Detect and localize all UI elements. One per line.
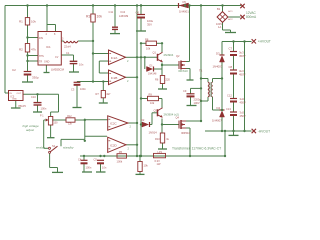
svg-text:10k: 10k (146, 46, 151, 50)
svg-text:Transformer: 117VAC-6.3VAC-CT: Transformer: 117VAC-6.3VAC-CT (172, 147, 221, 151)
svg-text:R12: R12 (67, 115, 72, 118)
svg-text:THS: THS (39, 55, 44, 58)
svg-text:DIS: DIS (39, 37, 43, 40)
svg-text:450V: 450V (240, 114, 246, 118)
svg-text:10k: 10k (150, 101, 155, 105)
svg-text:100k: 100k (117, 159, 123, 163)
svg-text:C13: C13 (226, 107, 231, 111)
svg-text:C6: C6 (136, 11, 140, 15)
svg-text:R6: R6 (155, 77, 159, 81)
svg-text:GND: GND (44, 61, 50, 64)
svg-text:450V: 450V (239, 73, 246, 77)
svg-text:enable: enable (36, 146, 45, 150)
svg-text:IC3: IC3 (11, 96, 15, 99)
svg-text:100V: 100V (194, 101, 200, 105)
svg-text:IRF510: IRF510 (181, 131, 191, 135)
svg-text:1W: 1W (157, 162, 161, 166)
svg-text:1N4148: 1N4148 (148, 73, 157, 76)
svg-text:C4: C4 (78, 158, 82, 162)
svg-text:3u3: 3u3 (240, 97, 245, 101)
svg-text:IRF610: IRF610 (179, 69, 189, 73)
svg-text:IC2A: IC2A (111, 56, 118, 60)
svg-text:35V: 35V (147, 23, 152, 27)
svg-text:standby: standby (63, 146, 74, 150)
svg-text:C11: C11 (109, 10, 114, 14)
svg-text:C12: C12 (227, 94, 232, 98)
svg-text:R10: R10 (155, 137, 160, 141)
svg-text:C3: C3 (71, 88, 75, 92)
svg-text:Q4: Q4 (176, 116, 180, 120)
svg-text:LM555CM: LM555CM (51, 67, 65, 71)
svg-text:D4: D4 (217, 106, 221, 110)
svg-text:R8: R8 (145, 38, 149, 42)
svg-text:IC2C: IC2C (110, 122, 118, 126)
svg-text:R9: R9 (149, 93, 153, 97)
svg-text:D3: D3 (216, 52, 220, 56)
svg-text:TR: TR (39, 60, 42, 63)
svg-text:R3: R3 (86, 15, 90, 19)
svg-text:D2: D2 (141, 118, 145, 122)
svg-text:Q2: Q2 (176, 54, 180, 58)
svg-text:78L05: 78L05 (18, 104, 26, 108)
svg-text:450V: 450V (240, 101, 246, 105)
svg-text:R5: R5 (119, 150, 123, 154)
svg-text:C8: C8 (229, 65, 233, 69)
svg-text:C1: C1 (66, 51, 70, 55)
svg-text:1A: 1A (218, 25, 221, 29)
svg-text:+HVOUT: +HVOUT (258, 40, 271, 44)
svg-text:2N3904: 2N3904 (164, 53, 174, 57)
svg-text:R7: R7 (96, 92, 100, 96)
svg-text:C2: C2 (12, 68, 16, 72)
svg-text:22uH: 22uH (64, 44, 71, 48)
svg-text:450V: 450V (239, 54, 246, 58)
svg-text:10k: 10k (97, 15, 103, 19)
svg-text:OUT: OUT (17, 93, 22, 95)
svg-text:C10: C10 (31, 95, 36, 99)
svg-text:Q3: Q3 (154, 108, 158, 112)
svg-text:GND: GND (12, 99, 17, 101)
svg-text:D5: D5 (183, 0, 187, 4)
svg-text:C9: C9 (183, 89, 187, 93)
svg-text:220: 220 (166, 77, 171, 81)
svg-text:330p: 330p (32, 76, 39, 80)
svg-text:3u3: 3u3 (240, 111, 245, 115)
svg-text:10n: 10n (102, 165, 107, 169)
svg-text:10k: 10k (144, 164, 149, 168)
svg-text:-HVOUT: -HVOUT (258, 129, 270, 133)
svg-text:100: 100 (54, 121, 59, 124)
svg-text:100n: 100n (41, 107, 47, 111)
svg-text:100n: 100n (80, 87, 86, 91)
svg-text:Q1: Q1 (153, 50, 157, 54)
svg-text:1N914: 1N914 (149, 130, 158, 134)
svg-text:47k: 47k (31, 48, 36, 52)
svg-text:LM339: LM339 (119, 14, 129, 18)
svg-text:C5: C5 (94, 158, 98, 162)
svg-text:1N4001: 1N4001 (179, 9, 189, 13)
svg-text:C7: C7 (229, 47, 233, 51)
svg-text:R2: R2 (19, 48, 23, 52)
svg-text:IC2B: IC2B (111, 76, 118, 80)
svg-text:high voltage: high voltage (23, 124, 40, 128)
svg-text:CV: CV (55, 56, 59, 59)
svg-text:4k7: 4k7 (106, 92, 111, 96)
svg-text:R1: R1 (19, 20, 23, 24)
svg-text:adjust: adjust (26, 128, 34, 132)
svg-text:S1: S1 (52, 144, 56, 148)
svg-text:800mA: 800mA (246, 15, 257, 19)
svg-text:1N4007: 1N4007 (213, 65, 223, 69)
svg-text:LP1: LP1 (158, 150, 163, 154)
svg-text:B1: B1 (217, 7, 221, 11)
svg-text:T1: T1 (199, 69, 203, 73)
svg-text:100n: 100n (86, 165, 92, 169)
svg-text:IC1: IC1 (46, 45, 51, 49)
svg-text:10n: 10n (79, 63, 84, 67)
svg-text:1N4007: 1N4007 (212, 118, 222, 122)
svg-text:IC2D: IC2D (110, 143, 118, 147)
svg-text:10k: 10k (31, 20, 36, 24)
